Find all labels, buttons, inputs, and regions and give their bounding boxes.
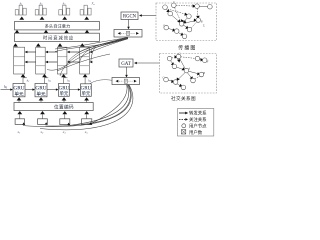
memory column 2: [36, 47, 46, 74]
svg-text:单元: 单元: [36, 90, 46, 97]
svg-text:传播图: 传播图: [178, 45, 196, 52]
legend row user count: [181, 129, 202, 136]
input box x1: [15, 119, 24, 125]
svg-text:用户数: 用户数: [189, 129, 203, 136]
svg-text:N: N: [206, 61, 209, 64]
svg-text:时间衰减效应: 时间衰减效应: [43, 34, 74, 41]
svg-text:单元: 单元: [60, 90, 69, 97]
GAT box: [119, 59, 133, 67]
curve bundle from fusion box 2 to inputs: [23, 85, 133, 130]
graph2 edges: [168, 57, 203, 87]
input box xn: [82, 119, 92, 125]
svg-text:用户节点: 用户节点: [189, 123, 207, 130]
svg-text:社交关系图: 社交关系图: [171, 95, 196, 102]
arrows bar3 to GRUs: [17, 97, 22, 100]
svg-text:单元: 单元: [14, 90, 24, 97]
icon y2: [35, 1, 46, 19]
legend row follow relation: [179, 116, 207, 123]
dashed box social graph: [160, 54, 217, 94]
GRU unit 4: [81, 84, 92, 97]
arrow GRU3-GRU4: [69, 89, 79, 91]
legend row retweet relation: [179, 110, 207, 117]
graph1 edges: [166, 5, 208, 35]
svg-text:GAT: GAT: [121, 62, 131, 67]
arrow GAT to fusion2: [126, 67, 128, 76]
svg-text:RGCN: RGCN: [123, 15, 137, 20]
arrow GRU2-GRU3: [47, 89, 57, 91]
fusion box 1: [114, 30, 142, 38]
GRU unit 3: [59, 84, 70, 97]
h0 arrow: [1, 89, 12, 91]
icon yn: [80, 1, 95, 20]
GRU unit 2: [35, 84, 47, 98]
svg-text:位置编码: 位置编码: [54, 104, 74, 111]
legend box: [178, 109, 214, 137]
graph2 nodes: [164, 54, 207, 89]
memory column 4: [80, 47, 90, 74]
dashed box propagation graph: [156, 3, 217, 41]
svg-text:A: A: [183, 21, 186, 24]
svg-text:多头自注意力: 多头自注意力: [45, 23, 71, 30]
svg-text:x1: x1: [17, 130, 21, 135]
svg-text:A: A: [187, 68, 190, 71]
curve bundle from fusion box 1 to columns: [47, 37, 128, 76]
icon y3: [59, 1, 70, 19]
input box x2: [38, 119, 48, 125]
svg-text:关注关系: 关注关系: [189, 116, 207, 123]
arrows input boxes to bar3: [17, 111, 22, 114]
svg-text:C: C: [179, 53, 181, 56]
GRU to column connectors: [23, 77, 85, 84]
arrow graph2 to GAT: [136, 62, 160, 64]
svg-text:转发关系: 转发关系: [189, 110, 207, 117]
memory column 1: [14, 47, 25, 74]
graph1 nodes: [163, 3, 213, 39]
GRU unit 1: [13, 84, 25, 98]
svg-text:h1: h1: [27, 78, 30, 83]
wire GRU4 to fusion box 2: [90, 80, 112, 84]
arrow GRU1-GRU2: [25, 89, 34, 91]
inter-column decay arrows: [26, 52, 80, 62]
fusion box 2: [112, 78, 140, 85]
svg-text:单元: 单元: [82, 90, 91, 97]
EGCN box: [121, 12, 138, 20]
legend row user node: [182, 123, 207, 130]
arrows columns to bar2: [13, 43, 18, 46]
arrows bar2 to bar1: [15, 30, 20, 33]
arrow graph1 to EGCN: [141, 15, 157, 17]
icon y1: [15, 1, 26, 19]
svg-text:C: C: [163, 24, 165, 27]
svg-text:C: C: [173, 1, 175, 4]
bar multi-head self-attention: [15, 22, 100, 30]
svg-text:C: C: [163, 77, 165, 80]
input box x3: [60, 119, 70, 125]
bar positional encoding: [14, 103, 93, 111]
arrow EGCN to fusion1: [128, 20, 130, 28]
bar time decay: [15, 33, 100, 41]
memory column 3: [57, 47, 67, 74]
